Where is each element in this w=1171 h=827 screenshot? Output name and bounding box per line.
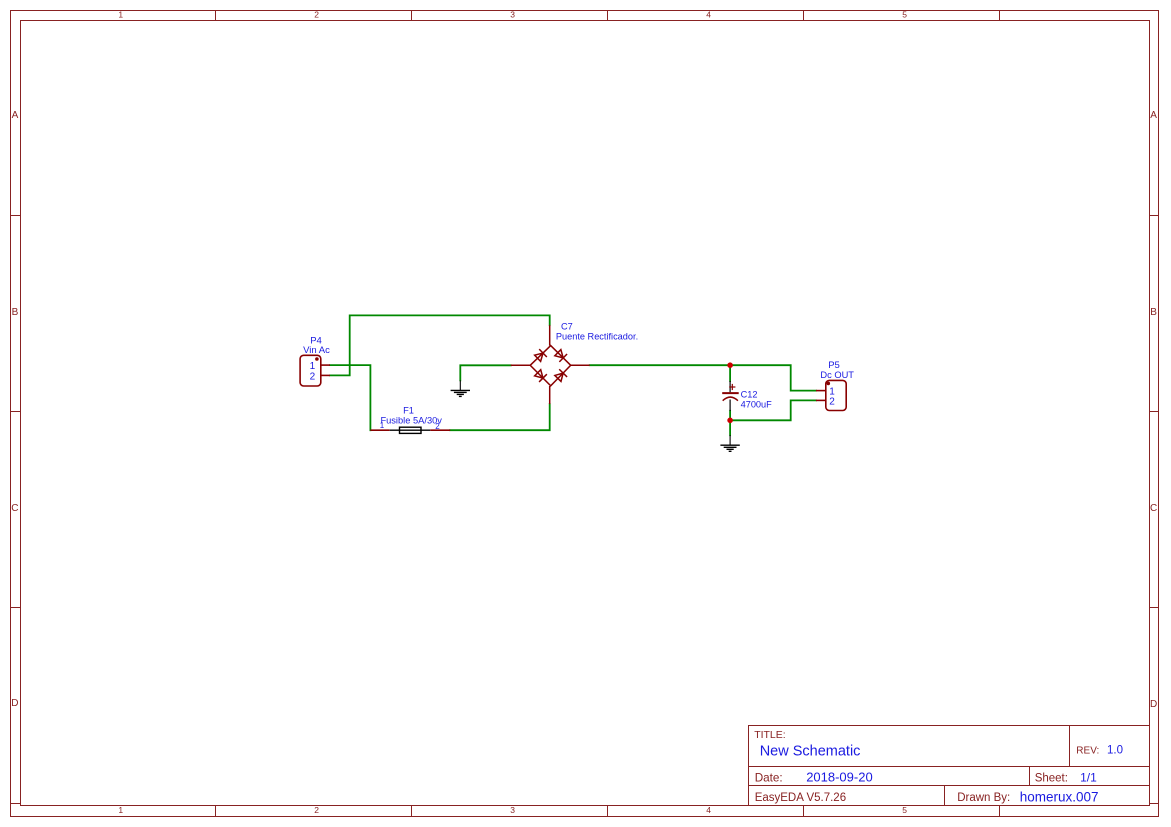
svg-text:Vin Ac: Vin Ac [303, 345, 330, 356]
svg-text:5: 5 [902, 805, 907, 815]
svg-text:1: 1 [380, 421, 385, 430]
svg-text:D: D [11, 698, 18, 709]
svg-text:F1: F1 [403, 406, 414, 416]
svg-text:A: A [1150, 110, 1157, 121]
svg-text:B: B [1150, 307, 1157, 318]
svg-text:Sheet:: Sheet: [1035, 773, 1068, 785]
svg-text:Dc OUT: Dc OUT [820, 370, 854, 380]
svg-text:C: C [1150, 503, 1157, 514]
svg-text:1.0: 1.0 [1107, 744, 1123, 756]
svg-text:EasyEDA V5.7.26: EasyEDA V5.7.26 [755, 792, 846, 804]
svg-text:homerux.007: homerux.007 [1020, 790, 1099, 805]
svg-text:B: B [12, 307, 19, 318]
svg-text:3: 3 [510, 10, 515, 20]
svg-text:2: 2 [310, 372, 316, 383]
svg-text:2: 2 [829, 397, 835, 408]
svg-text:TITLE:: TITLE: [754, 729, 786, 741]
svg-text:5: 5 [902, 10, 907, 20]
svg-text:Date:: Date: [755, 772, 783, 785]
svg-text:New Schematic: New Schematic [760, 744, 861, 760]
svg-text:Drawn By:: Drawn By: [957, 792, 1010, 804]
svg-text:4700uF: 4700uF [741, 400, 773, 410]
svg-text:4: 4 [706, 10, 711, 20]
svg-text:C7: C7 [561, 322, 573, 332]
svg-text:3: 3 [510, 805, 515, 815]
svg-text:D: D [1150, 699, 1157, 710]
svg-text:1/1: 1/1 [1080, 771, 1097, 785]
svg-text:2: 2 [314, 805, 319, 815]
svg-text:2: 2 [314, 10, 319, 20]
svg-text:2: 2 [435, 422, 440, 431]
svg-text:C: C [11, 503, 18, 514]
svg-text:REV:: REV: [1076, 745, 1099, 756]
svg-text:Fusible 5A/30v: Fusible 5A/30v [380, 415, 442, 425]
svg-text:1: 1 [118, 805, 123, 815]
svg-text:4: 4 [706, 805, 711, 815]
svg-text:C12: C12 [741, 390, 758, 400]
svg-text:2018-09-20: 2018-09-20 [806, 770, 873, 785]
svg-text:Puente Rectificador.: Puente Rectificador. [556, 331, 638, 341]
svg-text:1: 1 [118, 10, 123, 20]
svg-text:A: A [12, 110, 19, 121]
